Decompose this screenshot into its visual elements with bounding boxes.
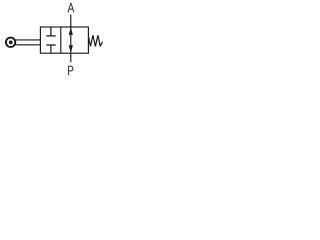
port line P [70,53,72,62]
arrowhead up [69,27,73,35]
label P [68,66,73,75]
valve position divider [60,27,62,53]
blocked port T bottom [46,45,55,53]
flow path arrow shaft [70,28,72,53]
roller actuator [6,38,15,47]
blocked port T top [46,27,55,36]
label A [68,3,75,12]
valve body outline [40,27,88,53]
return spring [88,35,102,46]
plunger stem top line [15,39,40,41]
port line A [70,15,72,27]
plunger stem bottom line [15,44,40,46]
arrowhead down [69,45,73,53]
